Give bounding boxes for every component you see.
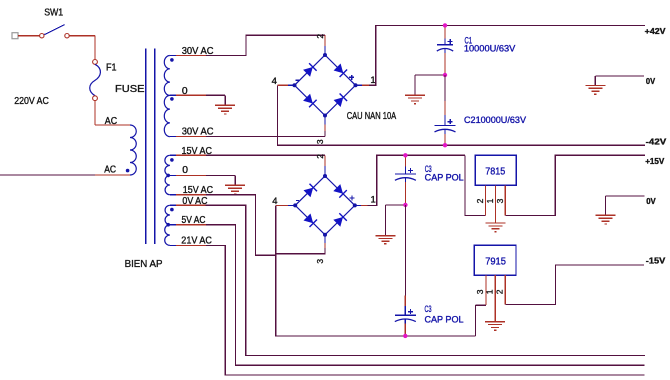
pin 2 bridge1 top bbox=[324, 46, 326, 55]
svg-text:7915: 7915 bbox=[485, 257, 506, 268]
wire 30VAC-bot to bridge pin3 bbox=[206, 136, 325, 138]
pin 1 bridge2 right bbox=[355, 204, 361, 206]
fuse F1 bbox=[93, 60, 98, 65]
pin 4 bridge2 left bbox=[288, 204, 295, 206]
svg-text:0V: 0V bbox=[646, 77, 656, 86]
diode D1a bbox=[303, 67, 313, 77]
pin 15V AC bottom tap bbox=[170, 194, 176, 196]
junction bbox=[443, 143, 447, 147]
wire 15VAC-top to bridge2 pin2 bbox=[206, 154, 325, 156]
svg-text:1: 1 bbox=[370, 75, 375, 86]
junction bbox=[403, 153, 407, 157]
wire 0V AC rail bbox=[206, 205, 645, 355]
node winding dot bbox=[166, 174, 170, 178]
pin 21V AC tap bbox=[170, 244, 176, 246]
diode D2c bbox=[304, 214, 314, 224]
ground bbox=[224, 95, 226, 105]
wire bridge2 pin1 to regulator input bbox=[367, 155, 465, 205]
node winding dot bbox=[166, 223, 170, 227]
wire bbox=[0, 174, 95, 176]
svg-text:4: 4 bbox=[272, 76, 277, 87]
pin 1 7815 bbox=[495, 185, 497, 223]
switch SW1 bbox=[40, 34, 44, 38]
regulator U1 7815 box bbox=[475, 155, 516, 185]
transformer secondary winding 0-5-21V bbox=[165, 205, 170, 224]
svg-text:CAP POL: CAP POL bbox=[425, 172, 464, 182]
svg-text:FUSE: FUSE bbox=[115, 84, 145, 95]
svg-text:0: 0 bbox=[182, 86, 188, 97]
junction bbox=[443, 73, 447, 77]
wire bbox=[18, 35, 39, 37]
node bridge2 left vertex bbox=[293, 203, 297, 207]
node bridge2 top vertex bbox=[323, 174, 327, 178]
wire 0V stub bbox=[606, 195, 645, 197]
svg-text:CAU NAN 10A: CAU NAN 10A bbox=[347, 111, 397, 122]
svg-text:30V AC: 30V AC bbox=[182, 126, 214, 137]
svg-text:AC: AC bbox=[105, 116, 118, 127]
wire bbox=[69, 35, 95, 37]
svg-text:AC: AC bbox=[104, 165, 116, 176]
wire 7815 out to +15V bbox=[505, 155, 645, 215]
svg-text:C210000U/63V: C210000U/63V bbox=[464, 115, 526, 125]
ground bbox=[486, 222, 506, 224]
svg-text:0: 0 bbox=[182, 165, 188, 176]
svg-text:C3: C3 bbox=[425, 304, 432, 314]
svg-text:10000U/63V: 10000U/63V bbox=[464, 44, 515, 54]
polarity plus bridge2 bbox=[350, 197, 355, 199]
node bridge1 right vertex bbox=[354, 83, 358, 87]
wire bbox=[444, 25, 446, 38]
ground bbox=[585, 84, 605, 86]
svg-text:0V: 0V bbox=[646, 197, 656, 206]
wire bridge1 pin1 to +42V rail bbox=[369, 25, 645, 85]
svg-text:2: 2 bbox=[475, 198, 485, 203]
wire minus rail up to 7915 bbox=[474, 305, 476, 336]
junction bbox=[443, 23, 447, 27]
wire bridge2 pin3 to minus rail bbox=[276, 248, 476, 336]
junction bbox=[403, 334, 407, 338]
transformer T1 primary winding bbox=[130, 125, 136, 175]
diode D2d bbox=[333, 217, 343, 227]
svg-text:SW1: SW1 bbox=[44, 8, 63, 19]
wire C1C2 mid to ground bbox=[415, 74, 445, 76]
node bridge2 right vertex bbox=[353, 203, 357, 207]
node winding dot bbox=[170, 58, 174, 62]
wire 0-tap to ground bbox=[206, 94, 225, 96]
svg-text:0V AC: 0V AC bbox=[182, 196, 208, 207]
pin 30V AC bottom tap bbox=[170, 136, 176, 138]
ground bbox=[405, 94, 425, 96]
pin 15V AC top tap bbox=[170, 154, 176, 156]
pin 5V AC tap bbox=[170, 224, 176, 226]
svg-text:3: 3 bbox=[475, 289, 485, 294]
ground bbox=[375, 235, 395, 237]
pin 3 bridge2 bottom bbox=[324, 235, 326, 243]
svg-text:-15V: -15V bbox=[646, 256, 666, 265]
polarity plus bridge1 bbox=[349, 76, 354, 78]
capacitor C2 bbox=[444, 115, 446, 126]
wire bbox=[95, 174, 130, 176]
pin 1 bridge1 right bbox=[356, 84, 363, 86]
pin 4 bridge1 left bbox=[288, 84, 295, 86]
svg-text:CAP POL: CAP POL bbox=[425, 314, 464, 324]
diode D1b bbox=[334, 64, 344, 74]
wire 0V stub bbox=[595, 75, 644, 77]
wire 5V AC rail bbox=[206, 225, 645, 366]
node winding dot bbox=[170, 97, 174, 101]
svg-text:+42V: +42V bbox=[645, 27, 666, 36]
svg-text:3: 3 bbox=[315, 259, 325, 264]
svg-text:21V AC: 21V AC bbox=[181, 235, 212, 246]
node winding dot bbox=[170, 158, 174, 162]
svg-text:5V AC: 5V AC bbox=[182, 215, 206, 226]
wire bbox=[444, 75, 446, 101]
pin 2 7915 bbox=[504, 275, 506, 304]
regulator U2 7915 box bbox=[474, 245, 516, 275]
polarity minus bridge2 bbox=[296, 200, 299, 202]
ground bbox=[596, 214, 616, 216]
capacitor C3 upper bbox=[404, 167, 406, 174]
svg-text:BIEN AP: BIEN AP bbox=[125, 259, 163, 270]
svg-text:4: 4 bbox=[272, 196, 277, 207]
wire bbox=[444, 134, 446, 145]
node bridge1 bottom vertex bbox=[323, 114, 327, 118]
ground bbox=[225, 184, 245, 186]
wire 7915 out to -15V bbox=[505, 265, 644, 305]
wire 0-tap2 to ground bbox=[206, 174, 235, 176]
svg-text:2: 2 bbox=[315, 34, 325, 39]
node winding dot bbox=[170, 208, 174, 212]
pin 0 tap bbox=[170, 94, 176, 96]
svg-text:F1: F1 bbox=[106, 63, 117, 74]
pin 3 bridge1 bottom bbox=[324, 116, 326, 125]
svg-text:-42V: -42V bbox=[646, 138, 667, 147]
ground bbox=[485, 321, 505, 323]
node primary dot bbox=[126, 169, 130, 173]
wire regulator input drop bbox=[465, 155, 486, 215]
svg-text:2: 2 bbox=[315, 154, 325, 159]
wire 21V AC rail bbox=[206, 245, 644, 375]
pin 0V AC tap bbox=[170, 204, 176, 206]
svg-text:1: 1 bbox=[371, 195, 376, 206]
transformer secondary winding 30V-0-30V bbox=[164, 56, 170, 96]
pin 3 7815 bbox=[504, 185, 506, 215]
diode D2a bbox=[304, 188, 314, 198]
bridge rectifier D2 outline bbox=[295, 176, 355, 235]
wire bbox=[404, 296, 406, 307]
svg-text:1: 1 bbox=[485, 289, 495, 294]
svg-text:1: 1 bbox=[485, 198, 495, 203]
pin 2 bridge2 top bbox=[324, 166, 326, 176]
pin 1 7915 bbox=[494, 275, 496, 321]
node bridge1 top vertex bbox=[323, 53, 327, 57]
diode D1c bbox=[303, 94, 313, 104]
wire bbox=[404, 324, 406, 336]
pin 2 7815 bbox=[485, 185, 487, 215]
svg-text:3: 3 bbox=[315, 139, 325, 144]
pin 0 tap bbox=[170, 174, 176, 176]
wire bbox=[404, 155, 406, 166]
capacitor C3 lower bbox=[404, 306, 406, 315]
svg-text:3: 3 bbox=[495, 198, 505, 203]
port connector J1 bbox=[12, 33, 18, 39]
capacitor C1 bbox=[444, 39, 446, 45]
diode D1d bbox=[334, 97, 344, 107]
wire bbox=[94, 101, 96, 125]
diode D2b bbox=[333, 184, 343, 194]
wire bbox=[444, 101, 446, 115]
svg-text:7815: 7815 bbox=[485, 166, 505, 177]
transformer secondary winding 15V-0-15V bbox=[165, 155, 170, 175]
wire bridge1 pin4 to -42V rail bbox=[277, 85, 645, 145]
polarity minus bridge1 bbox=[296, 79, 299, 81]
wire mid to ground bbox=[385, 204, 405, 206]
svg-text:220V AC: 220V AC bbox=[14, 96, 49, 107]
svg-text:2: 2 bbox=[495, 289, 505, 294]
wire 15VAC-bot to bridge2 pin4 bbox=[206, 195, 276, 256]
wire bbox=[444, 53, 446, 75]
pin 3 7915 bbox=[485, 275, 487, 305]
wire mid rail down bbox=[404, 205, 406, 296]
bridge rectifier D1 outline bbox=[295, 55, 356, 116]
wire 30VAC-top to bridge pin2 bbox=[206, 35, 325, 55]
wire bbox=[404, 182, 406, 205]
node bridge1 left vertex bbox=[293, 83, 297, 87]
transformer core bbox=[145, 49, 147, 245]
pin 30V AC top tap bbox=[170, 55, 176, 57]
svg-text:+15V: +15V bbox=[645, 157, 665, 166]
junction bbox=[403, 203, 407, 207]
node bridge2 bottom vertex bbox=[323, 233, 327, 237]
